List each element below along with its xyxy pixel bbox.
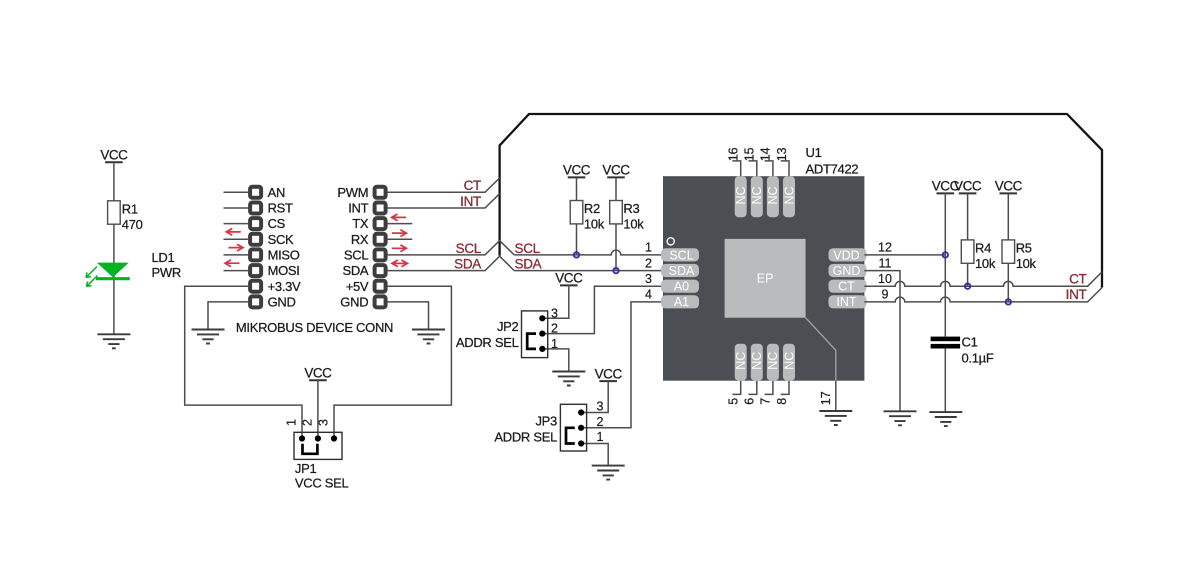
arrow out (SCL) — [392, 245, 407, 252]
wire stub pin CS — [224, 223, 249, 225]
svg-text:A0: A0 — [674, 280, 689, 294]
svg-text:12: 12 — [878, 241, 892, 255]
wire stub pin RST — [224, 207, 249, 209]
resistor R5 — [1002, 240, 1015, 263]
wire JP2 pin 1 to ground — [542, 349, 569, 372]
wire VCC to R2 — [576, 177, 578, 200]
svg-text:CT: CT — [1069, 271, 1086, 286]
svg-text:R4: R4 — [975, 241, 991, 256]
junction VDD/VCC — [943, 252, 948, 257]
svg-text:A1: A1 — [674, 295, 689, 309]
wire VCC to R3 — [615, 177, 617, 200]
ground (right header) — [412, 330, 445, 344]
power flag VCC (JP1) — [304, 366, 332, 381]
svg-text:10k: 10k — [623, 217, 644, 232]
svg-text:10: 10 — [878, 272, 892, 286]
svg-text:EP: EP — [757, 272, 774, 286]
wire +3.3V to JP1 pin 1 — [185, 286, 302, 438]
connector P2 right header body — [373, 185, 388, 310]
resistor R1 — [108, 201, 121, 224]
svg-text:RX: RX — [351, 232, 369, 247]
U1 top pin stubs and ticks — [732, 161, 789, 176]
wire CT: pin 10 to bus with hops — [864, 272, 1102, 286]
wire VCC to R4 — [967, 193, 969, 240]
svg-text:10k: 10k — [975, 256, 996, 271]
svg-text:CT: CT — [838, 280, 855, 294]
svg-text:CT: CT — [464, 178, 481, 193]
svg-text:ADT7422: ADT7422 — [806, 162, 859, 177]
svg-text:NC: NC — [734, 186, 748, 204]
wire stub pin RX — [387, 238, 412, 240]
svg-text:NC: NC — [750, 186, 764, 204]
jumper JP1 body — [294, 432, 342, 459]
power flag VCC (JP3) — [595, 366, 623, 381]
svg-text:8: 8 — [775, 398, 789, 405]
svg-text:GND: GND — [833, 264, 861, 278]
svg-text:SCL: SCL — [515, 241, 541, 256]
ground (JP2) — [552, 372, 585, 386]
wire stub pin SCK — [224, 238, 249, 240]
wire net INT from INT pin to bus — [387, 194, 499, 208]
svg-text:16: 16 — [727, 147, 741, 161]
U1 bottom pin numbers 5 6 7 8 (rotated) — [727, 398, 789, 405]
jumper JP2 shunt bracket pins 1-2 — [527, 334, 536, 349]
left header pin labels — [268, 185, 301, 310]
wire stub pin MISO — [224, 254, 249, 256]
wire VCC to JP3 pin 3 — [581, 381, 608, 412]
svg-text:JP3: JP3 — [535, 413, 557, 428]
wire +5V to JP1 pin 3 — [334, 286, 451, 438]
wire net CT from PWM pin to bus — [387, 178, 499, 192]
wire stub pin TX — [387, 223, 412, 225]
power flag VCC (R2) — [563, 163, 591, 178]
ground (left header) — [192, 330, 225, 344]
svg-text:TX: TX — [352, 216, 369, 231]
svg-text:15: 15 — [743, 147, 757, 161]
svg-text:NC: NC — [782, 352, 796, 370]
wire GND right header to ground — [387, 302, 428, 330]
svg-text:PWM: PWM — [337, 185, 368, 200]
svg-text:INT: INT — [460, 194, 481, 209]
svg-text:7: 7 — [759, 398, 773, 405]
svg-text:1: 1 — [551, 337, 558, 351]
svg-text:GND: GND — [268, 295, 296, 310]
svg-text:INT: INT — [1066, 287, 1087, 302]
svg-text:VCC: VCC — [602, 163, 630, 178]
U1 bottom pads NC x4 — [734, 344, 796, 381]
wire VCC to R5 — [1007, 193, 1009, 240]
svg-text:INT: INT — [348, 201, 368, 216]
wire GND left header to ground — [208, 302, 248, 330]
svg-text:VCC: VCC — [954, 179, 982, 194]
svg-text:3: 3 — [317, 419, 331, 426]
wire net SCL crossing bus — [387, 241, 514, 255]
svg-text:SCL: SCL — [456, 241, 482, 256]
jumper JP2 body — [522, 311, 548, 358]
svg-text:VCC: VCC — [563, 163, 591, 178]
wire VCC to R1 — [113, 162, 115, 201]
power flag VCC (R3) — [602, 163, 630, 178]
svg-text:3: 3 — [645, 272, 652, 286]
arrow in (MOSI) — [225, 260, 240, 267]
wire VCC to JP2 pin 3 — [542, 285, 569, 318]
svg-text:+5V: +5V — [346, 279, 369, 294]
wire GND pin 11 to ground — [864, 271, 900, 412]
wire R5 to INT net — [1007, 263, 1009, 302]
svg-text:VCC: VCC — [555, 271, 583, 286]
resistor R3 — [610, 201, 623, 224]
svg-text:SCL: SCL — [344, 248, 368, 263]
svg-text:NC: NC — [734, 352, 748, 370]
svg-text:NC: NC — [766, 186, 780, 204]
svg-text:1: 1 — [597, 430, 604, 444]
wire R3 to SDA net — [615, 224, 617, 271]
svg-text:470: 470 — [122, 217, 143, 232]
wire SCL net to pin 1 with hop over R3 leg — [514, 250, 663, 255]
resistor R4 — [961, 240, 974, 263]
wire A0: chip pin 3 to JP2 pin 2 — [542, 286, 663, 333]
wire R1 to LED to ground — [113, 224, 115, 334]
jumper JP3 shunt bracket pins 1-2 — [566, 428, 575, 444]
junction SDA/R3 — [613, 268, 618, 273]
ground (LED branch) — [97, 334, 130, 348]
svg-text:2: 2 — [551, 322, 558, 336]
connector P1 left header body — [248, 185, 263, 310]
LED light arrows — [86, 267, 98, 287]
ground (JP3) — [592, 466, 625, 480]
svg-text:MIKROBUS DEVICE CONN: MIKROBUS DEVICE CONN — [236, 320, 393, 335]
svg-text:NC: NC — [766, 352, 780, 370]
svg-text:CS: CS — [268, 216, 286, 231]
arrow out (RX) — [392, 230, 407, 237]
svg-text:11: 11 — [879, 256, 892, 270]
power flag VCC (JP2) — [555, 271, 583, 286]
svg-text:2: 2 — [301, 419, 315, 426]
svg-text:2: 2 — [597, 415, 604, 429]
svg-text:SCL: SCL — [669, 248, 693, 262]
svg-text:MISO: MISO — [268, 248, 300, 263]
resistor R2 — [570, 201, 583, 224]
junction INT/R5 — [1006, 299, 1011, 304]
power flag VCC (VDD node) — [932, 179, 960, 194]
LED LD1 symbol — [96, 263, 130, 279]
svg-text:SCK: SCK — [268, 232, 294, 247]
svg-text:1: 1 — [285, 419, 299, 426]
arrow out (MISO) — [229, 244, 244, 251]
svg-text:VCC: VCC — [995, 179, 1023, 194]
svg-text:1: 1 — [645, 241, 652, 255]
U1 top pin numbers 16 15 14 13 (rotated) — [727, 147, 789, 161]
bus outline (board frame) — [500, 114, 1102, 288]
capacitor C1 — [931, 337, 961, 349]
svg-text:NC: NC — [750, 352, 764, 370]
svg-text:10k: 10k — [1016, 256, 1037, 271]
U1 top pads NC x4 — [734, 176, 796, 217]
svg-text:U1: U1 — [806, 145, 822, 160]
power flag VCC (R5) — [995, 179, 1023, 194]
svg-text:VCC: VCC — [100, 147, 128, 162]
svg-text:R3: R3 — [623, 201, 639, 216]
wire net SDA crossing bus — [387, 256, 514, 270]
svg-text:3: 3 — [597, 400, 604, 414]
JP1 pin dots — [299, 435, 337, 441]
svg-text:JP1: JP1 — [295, 461, 317, 476]
svg-text:AN: AN — [268, 185, 285, 200]
svg-text:VDD: VDD — [833, 248, 859, 262]
wire stub pin MOSI — [224, 270, 249, 272]
svg-text:ADDR SEL: ADDR SEL — [494, 429, 557, 444]
power flag VCC (LED branch) — [100, 147, 128, 162]
arrow in (SCK) — [226, 229, 241, 236]
svg-text:3: 3 — [551, 306, 558, 320]
wire VCC node vertical to C1 — [944, 193, 946, 412]
svg-text:10k: 10k — [584, 217, 605, 232]
JP2 pin dots — [539, 315, 545, 352]
svg-text:VCC SEL: VCC SEL — [295, 475, 349, 490]
svg-text:VCC: VCC — [304, 366, 332, 381]
svg-text:MOSI: MOSI — [268, 263, 300, 278]
wire R4 to CT net — [967, 263, 969, 286]
U1 bottom pin stubs and ticks — [732, 381, 789, 395]
svg-text:14: 14 — [759, 147, 773, 161]
svg-text:13: 13 — [775, 147, 789, 161]
wire VDD pin 12 to VCC node — [864, 254, 945, 256]
IC U1 body — [663, 176, 864, 381]
svg-text:NC: NC — [782, 186, 796, 204]
svg-text:C1: C1 — [962, 334, 978, 349]
wire JP3 pin 1 to ground — [581, 444, 608, 466]
U1 exposed pad EP — [725, 239, 806, 318]
junction CT/R4 — [965, 284, 970, 289]
svg-text:GND: GND — [340, 295, 368, 310]
arrow in (TX) — [392, 214, 407, 221]
svg-text:+3.3V: +3.3V — [268, 279, 301, 294]
svg-text:4: 4 — [645, 288, 652, 302]
svg-text:RST: RST — [268, 201, 293, 216]
jumper JP3 body — [560, 404, 586, 451]
wire VCC to JP1 pin 2 — [317, 380, 319, 438]
junction SCL/R2 — [574, 252, 579, 257]
svg-text:SDA: SDA — [669, 264, 695, 278]
svg-text:PWR: PWR — [152, 265, 181, 280]
svg-text:JP2: JP2 — [497, 319, 519, 334]
svg-text:5: 5 — [727, 398, 741, 405]
U1 pin-1 indicator circle — [667, 238, 674, 245]
svg-text:17: 17 — [819, 391, 833, 405]
svg-text:ADDR SEL: ADDR SEL — [456, 335, 519, 350]
wire R2 to SCL net — [576, 224, 578, 255]
svg-text:SDA: SDA — [515, 256, 542, 271]
svg-text:LD1: LD1 — [152, 250, 175, 265]
ground (pin 17) — [819, 411, 852, 425]
svg-text:2: 2 — [645, 256, 652, 270]
svg-text:SDA: SDA — [342, 263, 368, 278]
pin 17 EP connection wire — [806, 318, 836, 381]
svg-text:INT: INT — [836, 295, 857, 309]
wire SDA net to pin 2 — [514, 270, 663, 272]
svg-text:VCC: VCC — [595, 366, 623, 381]
jumper JP1 shunt bracket pins 1-2 — [303, 444, 318, 454]
svg-text:6: 6 — [743, 398, 757, 405]
svg-text:R2: R2 — [584, 201, 600, 216]
wire INT: pin 9 to bus with hops — [864, 288, 1102, 302]
wire A1: chip pin 4 to JP3 pin 2 — [581, 302, 663, 428]
U1 right pads VDD GND CT INT — [829, 248, 867, 309]
ground (pin 11) — [884, 411, 917, 425]
power flag VCC (R4) — [954, 179, 982, 194]
wire stub pin AN — [224, 191, 249, 193]
arrow bidir (SDA) — [392, 260, 408, 267]
svg-text:9: 9 — [882, 288, 889, 302]
svg-text:0.1µF: 0.1µF — [962, 350, 994, 365]
U1 left pads SCL SDA A0 A1 — [661, 248, 699, 309]
svg-text:R5: R5 — [1016, 241, 1032, 256]
JP3 pin dots — [578, 409, 584, 446]
svg-text:SDA: SDA — [454, 256, 481, 271]
right header pin labels — [337, 185, 369, 310]
ground (C1) — [929, 412, 962, 426]
svg-text:R1: R1 — [122, 201, 138, 216]
